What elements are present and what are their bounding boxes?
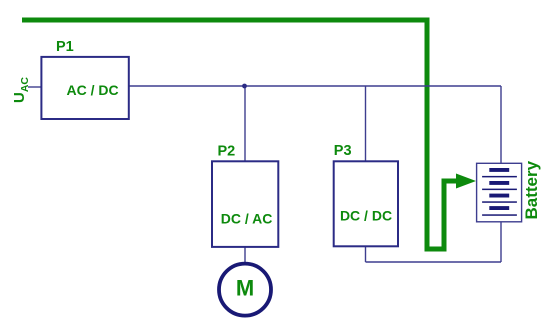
svg-text:P3: P3 [334, 143, 352, 159]
svg-text:DC / AC: DC / AC [221, 211, 273, 227]
svg-text:P2: P2 [218, 144, 236, 160]
svg-text:Battery: Battery [522, 160, 541, 219]
svg-text:AC / DC: AC / DC [67, 82, 119, 98]
svg-text:P1: P1 [56, 39, 74, 55]
svg-text:DC / DC: DC / DC [340, 208, 392, 224]
svg-text:M: M [236, 276, 254, 301]
